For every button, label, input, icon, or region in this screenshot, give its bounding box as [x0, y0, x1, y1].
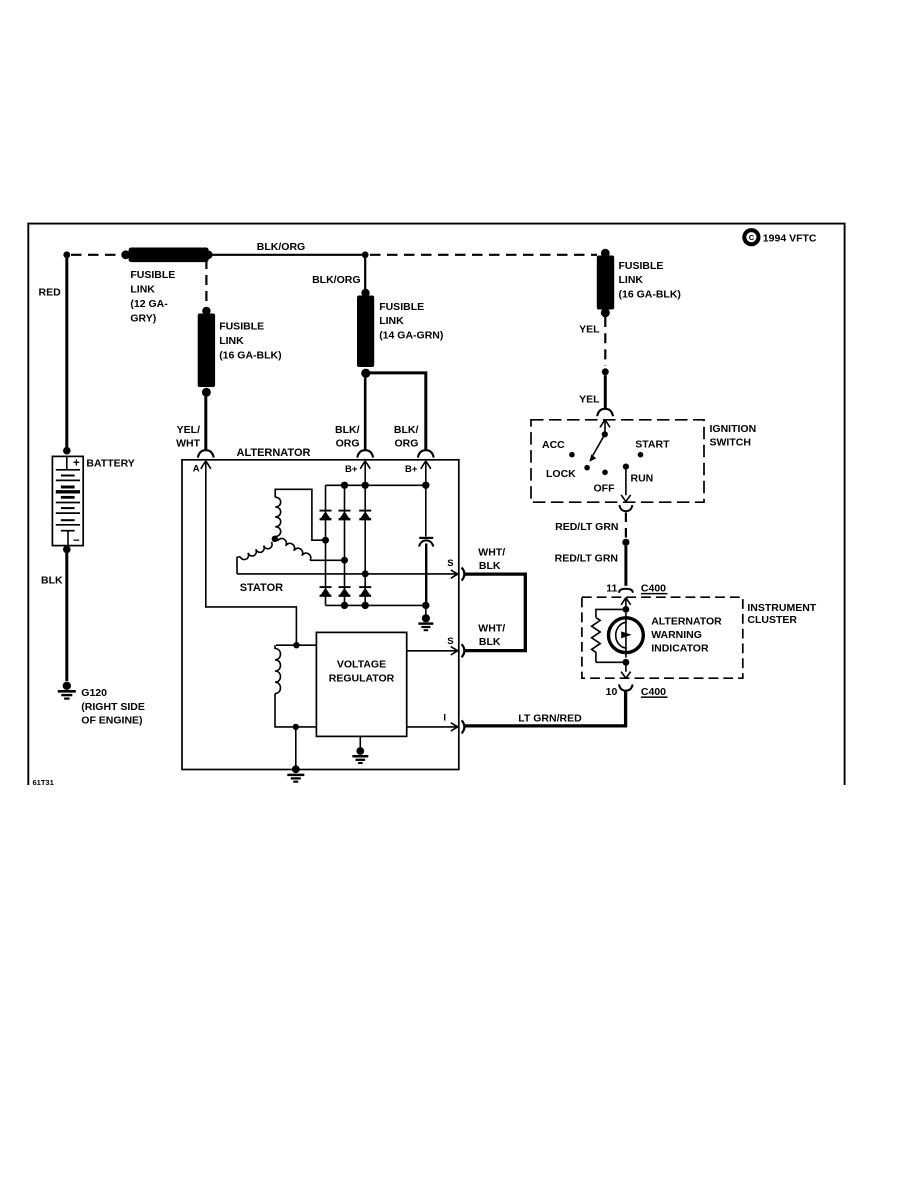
svg-text:YEL: YEL: [579, 393, 600, 405]
capacitor C1: [419, 538, 433, 606]
wire LT GRN/RED from I to cluster: [464, 690, 627, 727]
fusible link F4 (16 GA-BLK) vertical right: [597, 249, 614, 317]
node: field top junction: [293, 642, 299, 648]
svg-text:1994 VFTC: 1994 VFTC: [763, 233, 817, 245]
svg-text:STATOR: STATOR: [240, 582, 283, 594]
diode D2 upper: [339, 511, 351, 520]
component label IGNITION SWITCH: [710, 423, 757, 449]
wire YEL/WHT to alternator A terminal: [204, 397, 207, 450]
node top bus leg2: [341, 482, 348, 489]
svg-text:G120: G120: [81, 687, 107, 699]
svg-text:LINK: LINK: [619, 274, 644, 286]
contact dot RUN: [623, 464, 629, 470]
svg-text:LT GRN/RED: LT GRN/RED: [518, 713, 582, 725]
battery BAT: [52, 456, 83, 547]
svg-text:61T31: 61T31: [33, 778, 54, 787]
svg-text:S: S: [447, 636, 453, 647]
svg-text:YEL: YEL: [579, 324, 600, 336]
svg-text:INDICATOR: INDICATOR: [651, 642, 709, 654]
net label WHT/BLK (lower): [478, 622, 505, 648]
svg-text:BLK: BLK: [41, 575, 63, 587]
svg-text:(16 GA-BLK): (16 GA-BLK): [219, 349, 281, 361]
wire BLK/ORG solid from F1 to node: [212, 254, 365, 256]
svg-text:I: I: [443, 712, 446, 723]
wire: RED battery feed: [65, 258, 68, 448]
stator phase 3 winding (right arm): [278, 538, 342, 560]
svg-text:B+: B+: [345, 464, 358, 475]
switch blade (wiper to LOCK): [589, 434, 605, 461]
svg-text:ALTERNATOR: ALTERNATOR: [237, 447, 311, 459]
svg-text:WHT/: WHT/: [478, 546, 505, 558]
svg-text:A: A: [193, 464, 200, 475]
svg-text:WARNING: WARNING: [651, 629, 702, 641]
wire: rectifier bottom bus: [326, 604, 426, 606]
connector label C400 (bottom): [641, 686, 668, 698]
svg-text:LINK: LINK: [130, 284, 155, 296]
diode D3 upper: [359, 511, 371, 520]
ground: voltage regulator ground: [352, 736, 368, 763]
node bottom bus leg3: [362, 602, 369, 609]
node: indicator bottom junction: [623, 659, 630, 666]
node: S tap on leg3: [362, 570, 369, 577]
component label ALTERNATOR WARNING INDICATOR: [651, 616, 722, 655]
node: battery - terminal: [63, 546, 71, 554]
node: stator phase1 to leg1: [322, 537, 329, 544]
fusible link F2 (16 GA-BLK) vertical left: [198, 307, 215, 397]
svg-text:S: S: [447, 558, 453, 569]
node: RED/LT GRN splice: [622, 539, 629, 546]
wire: regulator I indicator line: [407, 726, 457, 728]
svg-text:ALTERNATOR: ALTERNATOR: [651, 616, 722, 628]
wire: solid RED/LT GRN to C400: [624, 546, 627, 586]
wire WHT/BLK loop S to S: [464, 574, 525, 651]
svg-text:BLK/ORG: BLK/ORG: [257, 241, 305, 253]
net label BLK/ORG (B+ first): [335, 424, 360, 450]
resistor R1 (shunt): [592, 609, 626, 662]
wire stub from node to fusible link F3: [364, 257, 366, 289]
voltage regulator U1: [316, 632, 406, 736]
wire BLK to ground: [65, 553, 68, 681]
node: battery positive junction: [63, 251, 70, 258]
node: indicator top junction: [623, 606, 630, 613]
ground label G120 (RIGHT SIDE OF ENGINE): [81, 687, 145, 727]
svg-text:C400: C400: [641, 686, 666, 698]
connector terminal B+ first: [357, 450, 373, 469]
svg-text:SWITCH: SWITCH: [710, 436, 751, 448]
wire: dashed RED/LT GRN segment: [625, 513, 627, 539]
svg-text:BATTERY: BATTERY: [86, 457, 134, 469]
ground: field winding ground: [287, 730, 304, 782]
fusible link F1 (12 GA-GRY) horizontal: [121, 248, 212, 263]
ground: capacitor/case ground: [418, 605, 433, 630]
diode D6 lower: [359, 587, 371, 596]
svg-text:RED: RED: [39, 287, 62, 299]
wire: dashed BLK/ORG feed to fusible link F1: [71, 254, 122, 256]
svg-text:C400: C400: [641, 582, 666, 594]
svg-text:RUN: RUN: [631, 472, 654, 484]
node bottom bus capacitor: [422, 602, 429, 609]
connector C400 pin 11: [619, 589, 633, 609]
contact dot LOCK: [584, 465, 590, 471]
wire: regulator S sense line: [407, 650, 457, 652]
node top bus capacitor: [422, 482, 429, 489]
value label F4: FUSIBLE LINK (16 GA-BLK): [619, 260, 681, 301]
svg-text:CLUSTER: CLUSTER: [747, 614, 797, 626]
svg-text:LINK: LINK: [219, 335, 244, 347]
stator phase 2 winding (left arm): [237, 542, 272, 574]
wire: rectifier leg 1: [325, 485, 327, 605]
node bottom bus leg2: [341, 602, 348, 609]
svg-text:RED/LT GRN: RED/LT GRN: [555, 552, 618, 564]
node: YEL splice: [602, 368, 609, 375]
svg-text:FUSIBLE: FUSIBLE: [379, 301, 424, 313]
svg-text:BLK/ORG: BLK/ORG: [312, 274, 360, 286]
net label WHT/BLK (upper): [478, 546, 505, 572]
svg-text:OF ENGINE): OF ENGINE): [81, 715, 142, 727]
connector label C400 (top): [641, 582, 668, 594]
component label INSTRUMENT CLUSTER: [747, 602, 816, 626]
connector terminal S (alternator output): [451, 568, 465, 581]
net label YEL/WHT: [176, 424, 200, 450]
svg-text:10: 10: [606, 686, 618, 698]
stator phase 1 winding: [275, 489, 322, 540]
node: switch pivot: [602, 431, 608, 437]
svg-text:ACC: ACC: [542, 439, 565, 451]
wire: solid YEL to ignition switch: [604, 375, 607, 408]
wire BLK/ORG to alternator B+ (second): [369, 373, 426, 450]
ignition switch SW1 box: [531, 420, 704, 502]
svg-text:VOLTAGE: VOLTAGE: [337, 659, 386, 671]
wire BLK/ORG to alternator B+ (first): [364, 378, 367, 450]
alternator case box: [182, 460, 459, 770]
connector terminal I: [451, 720, 465, 733]
wire: B+ second down to capacitor: [425, 462, 427, 537]
diode D5 lower: [339, 587, 351, 596]
ground G120: [58, 682, 76, 699]
wire: RUN contact to switch output: [621, 469, 631, 502]
contact dot OFF: [602, 470, 608, 476]
svg-text:RED/LT GRN: RED/LT GRN: [555, 521, 618, 533]
svg-text:OFF: OFF: [594, 482, 616, 494]
wire: field junction to regulator: [299, 644, 316, 646]
switch common feed wire: [604, 421, 606, 434]
connector terminal S (regulator sense): [451, 644, 465, 657]
connector: ignition switch output: [619, 505, 632, 511]
wire: field bottom to regulator: [299, 726, 317, 728]
svg-text:START: START: [635, 438, 670, 450]
connector C400 pin 10: [619, 684, 633, 690]
svg-text:LINK: LINK: [379, 315, 404, 327]
svg-text:+: +: [73, 458, 80, 470]
wire: A terminal to field junction: [206, 462, 297, 646]
svg-text:WHT: WHT: [176, 437, 200, 449]
wire: stator tap to S terminal: [237, 573, 457, 575]
node: stator wye center: [272, 536, 278, 542]
svg-text:(14 GA-GRN): (14 GA-GRN): [379, 330, 443, 342]
node: BLK/ORG junction: [362, 251, 369, 258]
svg-text:(16 GA-BLK): (16 GA-BLK): [619, 289, 681, 301]
svg-text:GRY): GRY): [130, 313, 156, 325]
instrument cluster box: [582, 597, 743, 678]
indicator bulb: alternator warning lamp: [609, 613, 644, 658]
value label F3: FUSIBLE LINK (14 GA-GRN): [379, 301, 443, 342]
svg-text:FUSIBLE: FUSIBLE: [130, 269, 175, 281]
connector terminal B+ second: [418, 450, 434, 469]
svg-text:ORG: ORG: [336, 437, 360, 449]
wire: dashed YEL segment: [604, 317, 606, 366]
contact dot ACC: [569, 452, 575, 458]
svg-text:IGNITION: IGNITION: [710, 423, 757, 435]
wire: rectifier top bus: [326, 484, 426, 486]
wire: B+ first down rectifier leg 3: [364, 462, 366, 606]
svg-text:BLK/: BLK/: [394, 424, 419, 436]
copyright logo 1994 VFTC: [744, 230, 817, 245]
diode D4 lower: [320, 587, 332, 596]
node top bus leg3: [362, 482, 369, 489]
svg-text:REGULATOR: REGULATOR: [329, 673, 395, 685]
contact dot START: [638, 452, 644, 458]
svg-text:BLK: BLK: [479, 636, 501, 648]
svg-text:BLK: BLK: [479, 560, 501, 572]
value label F1: FUSIBLE LINK (12 GA-GRY): [130, 269, 175, 325]
svg-text:BLK/: BLK/: [335, 424, 360, 436]
connector terminal A (female arc + male arrow): [198, 450, 214, 469]
connector: ignition switch battery input: [597, 409, 613, 428]
fusible link F3 (14 GA-GRN) vertical middle: [357, 289, 374, 378]
svg-text:B+: B+: [405, 464, 418, 475]
wire: dashed BLK/ORG to fusible link F4: [370, 254, 597, 256]
svg-text:−: −: [73, 535, 80, 547]
diode D1 upper: [320, 511, 332, 520]
svg-text:11: 11: [606, 582, 617, 594]
field coil L1 (rotor): [275, 645, 296, 727]
svg-text:WHT/: WHT/: [478, 622, 505, 634]
wire: rectifier leg 2: [344, 485, 346, 605]
svg-text:ORG: ORG: [394, 437, 418, 449]
value label F2: FUSIBLE LINK (16 GA-BLK): [219, 321, 281, 362]
node: battery + terminal: [63, 447, 71, 455]
svg-text:(12 GA-: (12 GA-: [130, 298, 168, 310]
svg-text:LOCK: LOCK: [546, 468, 576, 480]
svg-text:YEL/: YEL/: [177, 424, 200, 436]
wire: dashed drop from F1 to fusible link F2: [205, 259, 207, 305]
svg-text:FUSIBLE: FUSIBLE: [219, 321, 264, 333]
node: field bottom junction: [293, 724, 299, 730]
wire: indicator to C400 pin 10: [621, 662, 631, 678]
svg-text:FUSIBLE: FUSIBLE: [619, 260, 664, 272]
svg-text:(RIGHT SIDE: (RIGHT SIDE: [81, 701, 145, 713]
svg-text:C: C: [749, 233, 755, 242]
svg-text:INSTRUMENT: INSTRUMENT: [747, 602, 816, 614]
net label BLK/ORG (B+ second): [394, 424, 419, 450]
node: stator phase3 to leg2: [341, 557, 348, 564]
